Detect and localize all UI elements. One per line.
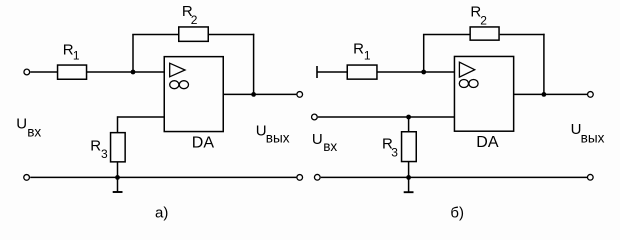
- resistor R1 (b): [347, 65, 377, 79]
- svg-text:б): б): [450, 204, 464, 221]
- ground stub (circuit b): [404, 177, 414, 192]
- node junction: R3 / bottom rail (b): [406, 175, 411, 180]
- svg-text:вх: вх: [27, 124, 41, 139]
- label U_vyx (circuit b): [571, 121, 605, 145]
- label U_vx (circuit a): [16, 115, 41, 139]
- svg-text:а): а): [155, 204, 168, 221]
- bottom-left terminal (circuit a): [24, 175, 30, 181]
- wire: feedback rail to R2 (b): [423, 33, 470, 35]
- svg-text:R: R: [90, 138, 101, 155]
- bottom rail (circuit b): [321, 176, 587, 178]
- svg-text:вых: вых: [581, 130, 605, 145]
- node junction: output / feedback (b): [542, 92, 547, 97]
- wire: R2 to right feedback corner: [209, 33, 255, 35]
- mid-left terminal (circuit b): [312, 114, 318, 120]
- wire: input terminal to R1: [30, 71, 57, 73]
- svg-text:2: 2: [191, 13, 198, 27]
- op-amp DA box: [164, 57, 223, 132]
- svg-text:U: U: [312, 131, 323, 148]
- svg-text:R: R: [353, 40, 364, 57]
- label R1 (b): [353, 40, 371, 62]
- wire: mid terminal to op-amp noninverting input (b): [318, 116, 455, 118]
- svg-text:U: U: [16, 115, 27, 132]
- bottom rail (circuit a): [30, 176, 296, 178]
- wire: R2 to right feedback corner (b): [500, 33, 545, 35]
- svg-text:вх: вх: [323, 139, 337, 154]
- resistor R1: [58, 65, 87, 79]
- op-amp DA box (b): [454, 56, 513, 131]
- op-amp infinity symbol (b): [459, 80, 478, 88]
- wire: corner down to R3: [117, 116, 119, 133]
- wire: junction up to feedback rail: [132, 34, 134, 72]
- op-amp triangle symbol (b): [459, 62, 474, 77]
- svg-text:3: 3: [101, 147, 108, 161]
- wire: junction down to R3 (b): [408, 117, 410, 132]
- svg-text:вых: вых: [266, 130, 290, 145]
- op-amp triangle symbol: [170, 63, 185, 77]
- node junction: R1 / R2 (b): [421, 70, 426, 75]
- output terminal (circuit a): [297, 92, 303, 98]
- label R2: [182, 3, 198, 27]
- wire: feedback down to output node (b): [543, 34, 545, 95]
- bottom-right terminal (circuit b): [587, 174, 593, 180]
- wire: junction up to feedback rail (b): [423, 34, 425, 72]
- wire: op-amp noninverting input: [118, 116, 165, 118]
- svg-text:1: 1: [364, 48, 371, 62]
- input bar terminal (circuit b): [316, 66, 318, 78]
- input terminal (top-left, circuit a): [24, 69, 30, 75]
- label U_vx (circuit b): [312, 131, 338, 154]
- wire: R1 to op-amp inverting input: [87, 71, 165, 73]
- op-amp infinity symbol: [170, 81, 189, 89]
- wire: feedback rail to R2: [132, 33, 178, 35]
- svg-text:3: 3: [391, 146, 398, 160]
- wire: bar to R1: [317, 71, 347, 73]
- node junction: output / feedback: [251, 92, 256, 97]
- label R3 (b): [382, 136, 398, 160]
- resistor R3 (b): [402, 132, 417, 162]
- bottom-right terminal (circuit a): [297, 175, 303, 181]
- label R3: [90, 138, 108, 162]
- wire: R1 to op-amp input (b): [377, 71, 454, 73]
- output terminal (circuit b): [588, 92, 594, 98]
- node junction: R3 / bottom rail: [115, 175, 120, 180]
- node junction: R3 tap (b): [406, 115, 411, 120]
- label U_vyx (circuit a): [256, 123, 290, 146]
- wire: op-amp output: [223, 93, 296, 95]
- node junction: R1 / R2 / op-amp input: [131, 70, 136, 75]
- svg-text:1: 1: [73, 49, 80, 63]
- svg-text:DA: DA: [476, 134, 499, 151]
- svg-text:DA: DA: [192, 135, 215, 152]
- svg-text:2: 2: [480, 13, 487, 27]
- label R2 (b): [470, 3, 487, 27]
- label R1: [63, 41, 80, 62]
- wire: R3 to bottom rail (b): [408, 161, 410, 177]
- wire: R3 to bottom rail: [117, 162, 119, 178]
- resistor R2: [179, 27, 209, 41]
- resistor R2 (b): [470, 27, 499, 40]
- ground stub (circuit a): [113, 177, 123, 192]
- wire: op-amp output (b): [514, 93, 587, 95]
- resistor R3: [111, 133, 126, 162]
- bottom-left terminal (circuit b): [314, 174, 320, 180]
- wire: feedback down to output node: [253, 34, 255, 95]
